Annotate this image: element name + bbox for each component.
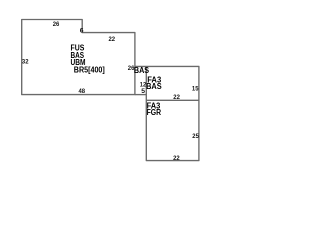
divider line between upper BAS and lower FGR sections: [146, 99, 199, 101]
main building outline: [22, 20, 135, 95]
svg-text:32: 32: [22, 59, 29, 66]
svg-text:22: 22: [173, 94, 180, 101]
svg-text:BAS: BAS: [146, 82, 162, 91]
right addition outer outline: [135, 66, 199, 160]
svg-text:25: 25: [192, 133, 199, 140]
svg-text:6: 6: [80, 28, 84, 35]
svg-text:22: 22: [109, 36, 116, 43]
svg-text:BR5[400]: BR5[400]: [74, 65, 105, 74]
svg-text:26: 26: [53, 21, 60, 28]
short bottom segment (5 ft): [135, 94, 146, 96]
svg-text:5: 5: [141, 88, 145, 95]
svg-text:FGR: FGR: [147, 108, 162, 117]
svg-text:48: 48: [79, 88, 86, 95]
svg-text:22: 22: [173, 155, 180, 162]
svg-text:BAS: BAS: [134, 66, 150, 75]
svg-text:15: 15: [192, 86, 199, 93]
